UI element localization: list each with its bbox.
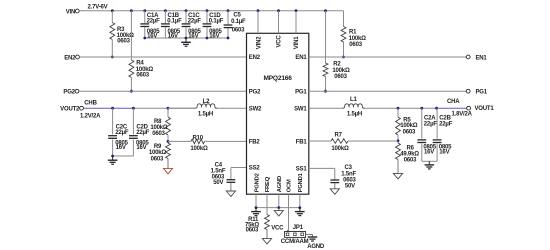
- svg-text:1.5nF: 1.5nF: [341, 171, 356, 177]
- capacitor C2D: [129, 136, 138, 139]
- wire R5 top: [397, 108, 399, 117]
- wire R4 bottom: [130, 78, 132, 92]
- wire rail corner to R1: [343, 11, 345, 27]
- node rail-C1D: [206, 9, 209, 12]
- resistor R6: [396, 143, 401, 160]
- pin label SS1: [296, 167, 308, 173]
- jumper JP1 header: [285, 232, 306, 238]
- svg-text:0603: 0603: [152, 131, 165, 137]
- pin label PGND2: [254, 173, 260, 192]
- resistor R9: [166, 143, 171, 159]
- node rail-VIN2: [257, 9, 260, 12]
- svg-text:100kΩ: 100kΩ: [150, 125, 168, 131]
- svg-text:EN2: EN2: [64, 55, 76, 61]
- wire R2 bottom: [325, 77, 327, 92]
- label R7: [331, 133, 349, 152]
- wire FB1 left: [309, 140, 331, 142]
- svg-text:PG1: PG1: [295, 89, 307, 95]
- node VOUT2-C2C: [111, 107, 114, 110]
- pin label EN1: [295, 55, 307, 61]
- resistor R7: [331, 139, 348, 144]
- svg-text:R1: R1: [349, 30, 357, 36]
- label L1: [347, 97, 362, 117]
- node PGND2: [255, 206, 258, 209]
- capacitor C1A wire: [144, 11, 146, 38]
- node bank C1C: [185, 37, 188, 40]
- label R3: [117, 27, 135, 44]
- svg-text:49.9kΩ: 49.9kΩ: [400, 151, 419, 157]
- svg-text:16V: 16V: [168, 34, 178, 40]
- svg-text:0.1µF: 0.1µF: [209, 19, 224, 25]
- svg-text:L1: L1: [350, 97, 357, 103]
- label C1D: [209, 13, 224, 40]
- svg-text:1.8V/2A: 1.8V/2A: [452, 112, 473, 118]
- terminal EN2: [64, 55, 79, 61]
- resistor R8: [166, 117, 171, 135]
- svg-text:SW1: SW1: [294, 106, 307, 112]
- svg-text:0603: 0603: [343, 178, 356, 184]
- svg-text:16V: 16V: [209, 34, 219, 40]
- wire SW1-L1: [309, 107, 342, 109]
- svg-text:VOUT2: VOUT2: [60, 107, 80, 113]
- svg-text:EN2: EN2: [249, 55, 261, 61]
- svg-text:0603: 0603: [151, 156, 164, 162]
- wire VOUT1 blue: [437, 107, 467, 109]
- node AGND: [277, 206, 280, 209]
- ground AGND jumper: [308, 237, 318, 241]
- resistor R4: [129, 60, 134, 78]
- label R2: [332, 62, 350, 81]
- svg-text:R4: R4: [136, 61, 144, 67]
- label R6: [400, 146, 419, 164]
- resistor R11: [265, 215, 270, 230]
- label C2B: [439, 116, 453, 156]
- label R1: [349, 30, 367, 48]
- svg-text:1.5µH: 1.5µH: [198, 112, 213, 118]
- pin label VIN2: [256, 36, 262, 49]
- node rail-R4: [130, 9, 133, 12]
- label C2C: [115, 124, 129, 151]
- node bank C1D: [206, 37, 209, 40]
- node rail-VCC: [277, 9, 280, 12]
- ground C4: [226, 191, 235, 197]
- terminal VOUT1: [467, 106, 495, 112]
- wire VOUT2 gray: [133, 107, 194, 109]
- svg-text:R10: R10: [192, 135, 203, 141]
- wire R11 bottom: [266, 230, 268, 239]
- svg-text:100kΩ: 100kΩ: [190, 146, 208, 152]
- capacitor C1C wire: [185, 11, 187, 38]
- svg-text:1.5nF: 1.5nF: [211, 168, 226, 174]
- ground R11: [262, 239, 271, 245]
- svg-text:50V: 50V: [213, 180, 223, 186]
- terminal PG2: [63, 89, 79, 95]
- node bank C5: [227, 37, 230, 40]
- wire PG1: [309, 90, 467, 92]
- svg-text:100kΩ: 100kΩ: [400, 123, 418, 129]
- svg-text:22µF: 22µF: [115, 130, 129, 136]
- svg-text:16V: 16V: [147, 34, 157, 40]
- wire SS2: [231, 168, 247, 180]
- pin label FB2: [249, 140, 261, 146]
- svg-text:0603: 0603: [246, 228, 259, 234]
- node FB1 divider: [397, 139, 400, 142]
- svg-text:VOUT1: VOUT1: [475, 106, 495, 112]
- pin label PGND1: [298, 172, 304, 192]
- svg-text:CHA: CHA: [447, 99, 460, 105]
- node bank C1A: [143, 37, 146, 40]
- label C3: [341, 165, 356, 190]
- resistor R5: [396, 117, 401, 135]
- svg-text:FB2: FB2: [249, 140, 261, 146]
- svg-text:VIN2: VIN2: [256, 36, 262, 49]
- node VOUT2-C2D: [132, 107, 135, 110]
- svg-text:PGND1: PGND1: [298, 172, 304, 192]
- wire VIN1 pin: [295, 11, 297, 34]
- wire R5-R6: [397, 135, 399, 143]
- node rail-C5: [227, 9, 230, 12]
- svg-text:VIN1: VIN1: [294, 36, 300, 49]
- pin label AGND: [277, 176, 283, 192]
- svg-text:FB1: FB1: [296, 140, 308, 146]
- svg-text:R8: R8: [154, 119, 162, 125]
- capacitor C2C wire: [112, 108, 114, 156]
- svg-text:0603: 0603: [403, 130, 416, 136]
- wire FB2 right: [205, 140, 247, 142]
- wire VOUT2 blue: [83, 107, 133, 109]
- svg-text:VCC: VCC: [277, 35, 283, 48]
- node rail-R3: [111, 9, 114, 12]
- pin label SW2: [249, 106, 262, 112]
- svg-text:MPQ2166: MPQ2166: [263, 75, 292, 82]
- svg-text:0.1µF: 0.1µF: [167, 19, 182, 25]
- node VOUT1-C2B: [435, 107, 438, 110]
- svg-text:C3: C3: [345, 165, 353, 171]
- node R4-PG2: [130, 90, 133, 93]
- svg-text:0603: 0603: [404, 158, 417, 164]
- label VCC: [271, 225, 284, 231]
- svg-text:22µF: 22µF: [136, 130, 150, 136]
- capacitor C2B: [433, 140, 442, 143]
- wire FREQ pin: [266, 194, 268, 214]
- node rail-C1C: [185, 9, 188, 12]
- resistor R2: [323, 63, 328, 77]
- pin label VCC: [277, 35, 283, 48]
- wire R8-R9: [167, 135, 169, 143]
- svg-text:PG2: PG2: [249, 89, 261, 95]
- wire R3 top: [111, 11, 113, 23]
- inductor L1: [342, 104, 365, 108]
- svg-text:0603: 0603: [117, 38, 130, 44]
- label R10: [190, 135, 208, 152]
- svg-text:22µF: 22µF: [188, 19, 202, 25]
- inductor L2: [195, 104, 218, 108]
- wire FB1 right: [348, 140, 398, 142]
- capacitor C2C: [108, 136, 117, 139]
- node rail-C1B: [164, 9, 167, 12]
- svg-text:EN1: EN1: [476, 55, 488, 61]
- capacitor C2D wire: [132, 108, 134, 156]
- ground R6: [393, 173, 402, 179]
- svg-text:PG1: PG1: [476, 90, 488, 96]
- svg-text:CCM/AAM: CCM/AAM: [281, 239, 309, 245]
- svg-text:22µF: 22µF: [439, 122, 453, 128]
- wire VIN2 pin: [257, 11, 259, 34]
- net label 1.2V/2A: [80, 114, 101, 120]
- wire PGND2 pin: [255, 194, 257, 207]
- net label 1.8V/2A: [452, 112, 473, 118]
- svg-text:SS2: SS2: [249, 166, 261, 172]
- svg-text:1.2V/2A: 1.2V/2A: [80, 114, 101, 120]
- pin label VIN1: [294, 36, 300, 49]
- svg-text:0.1µF: 0.1µF: [231, 19, 246, 25]
- capacitor C5 wire: [227, 11, 229, 38]
- capacitor C1D: [203, 24, 212, 27]
- wire R8 top: [167, 108, 169, 117]
- node VOUT1-R5: [397, 107, 400, 110]
- svg-text:16V: 16V: [188, 34, 198, 40]
- capacitor C1D wire: [206, 11, 208, 38]
- node FB2 divider: [167, 140, 170, 143]
- svg-text:0603: 0603: [349, 42, 362, 48]
- pin label OCM: [287, 179, 293, 192]
- net label 2.7V-6V: [88, 5, 108, 11]
- svg-text:OCM: OCM: [287, 179, 293, 192]
- resistor R1: [341, 27, 346, 43]
- label C5: [231, 12, 246, 33]
- svg-text:2.7V-6V: 2.7V-6V: [88, 5, 108, 11]
- svg-text:0603: 0603: [232, 28, 245, 34]
- pin label FREQ: [265, 176, 271, 192]
- node rail-C1A: [143, 9, 146, 12]
- capacitor C4: [227, 180, 236, 183]
- node PGND1: [298, 206, 301, 209]
- wire SW2-L2: [168, 107, 247, 109]
- wire PGND1 pin: [299, 194, 301, 207]
- wire VIN rail: [79, 10, 343, 12]
- svg-text:R2: R2: [333, 62, 341, 68]
- node R3-EN2: [111, 56, 114, 59]
- svg-text:R7: R7: [335, 133, 343, 139]
- pin label SS2: [249, 166, 261, 172]
- svg-text:EN1: EN1: [295, 55, 307, 61]
- svg-text:100kΩ: 100kΩ: [332, 68, 350, 74]
- wire R2 top: [325, 11, 327, 63]
- pin label PG2: [249, 89, 261, 95]
- svg-text:16V: 16V: [116, 145, 126, 151]
- svg-text:16V: 16V: [424, 150, 434, 156]
- svg-text:100kΩ: 100kΩ: [331, 146, 349, 152]
- capacitor C1C: [182, 24, 191, 27]
- svg-text:100kΩ: 100kΩ: [349, 36, 367, 42]
- pin label EN2: [249, 55, 261, 61]
- label C1C: [188, 13, 202, 40]
- node C2C gnd: [111, 155, 114, 158]
- capacitor C2B wire: [436, 108, 438, 161]
- ground C2C: [108, 156, 118, 164]
- node VOUT1-C2A: [420, 107, 423, 110]
- ground cap bank: [181, 38, 191, 46]
- node rail-R2: [324, 9, 327, 12]
- wire VCC pin: [278, 11, 280, 34]
- node R1-EN1: [342, 56, 345, 59]
- ground PGND2: [251, 208, 261, 216]
- label C2D: [136, 124, 150, 151]
- svg-text:50V: 50V: [345, 184, 355, 190]
- wire AGND pin: [278, 194, 280, 207]
- svg-text:VIN: VIN: [66, 9, 75, 15]
- svg-text:16V: 16V: [439, 150, 449, 156]
- svg-text:CHB: CHB: [84, 101, 97, 107]
- label L2: [198, 99, 213, 118]
- label MPQ2166: [263, 75, 292, 82]
- svg-text:SW2: SW2: [249, 106, 262, 112]
- resistor R10: [191, 139, 205, 144]
- svg-text:C5: C5: [233, 12, 241, 18]
- pin label FB1: [296, 140, 308, 146]
- label R11: [245, 217, 259, 234]
- wire R3 bottom: [111, 40, 113, 58]
- node R2-PG1: [324, 90, 327, 93]
- terminal VIN: [66, 9, 80, 15]
- ground AGND pin: [274, 208, 283, 217]
- wire EN1: [309, 56, 467, 58]
- wire cap bank bottom rail: [145, 37, 228, 39]
- label R9: [149, 144, 167, 162]
- wire FB2 left: [168, 140, 191, 142]
- wire OCM pin: [288, 194, 290, 231]
- ground PGND1: [295, 208, 305, 216]
- wire C2A/C2B bottom rail: [422, 160, 437, 162]
- wire C2C/C2D bottom rail: [113, 155, 134, 157]
- capacitor C1B wire: [164, 11, 166, 38]
- label C1A: [147, 13, 161, 40]
- svg-text:22µF: 22µF: [147, 19, 161, 25]
- wire C4 bottom: [230, 182, 232, 191]
- svg-text:FREQ: FREQ: [265, 176, 271, 192]
- wire JP1-AGND: [306, 234, 313, 237]
- label R8: [150, 119, 168, 137]
- svg-text:1.5µH: 1.5µH: [347, 112, 362, 118]
- label CCM/AAM: [281, 239, 309, 245]
- svg-text:AGND: AGND: [277, 176, 283, 192]
- svg-text:22µF: 22µF: [424, 122, 438, 128]
- svg-text:PG2: PG2: [63, 90, 75, 96]
- capacitor C3: [330, 180, 339, 183]
- wire VCC stub: [287, 230, 289, 232]
- svg-text:0603: 0603: [136, 72, 149, 78]
- wire EN2: [79, 56, 246, 58]
- label C1B: [167, 13, 182, 40]
- ground C3: [330, 189, 339, 195]
- svg-text:L2: L2: [203, 99, 210, 105]
- svg-text:SS1: SS1: [296, 167, 308, 173]
- terminal PG1: [466, 89, 487, 95]
- node rail-VIN1: [295, 9, 298, 12]
- ground C2A/C2B: [425, 161, 435, 169]
- svg-text:VCC: VCC: [271, 225, 284, 231]
- net label CHB: [84, 101, 97, 107]
- wire PG2: [79, 90, 247, 92]
- label JP1: [293, 225, 304, 231]
- label AGND: [307, 244, 325, 250]
- wire L1-VOUT1: [365, 107, 437, 109]
- op-amp U1 MPQ2166 box: [247, 33, 309, 194]
- capacitor C1B: [161, 24, 170, 27]
- svg-text:16V: 16V: [136, 145, 146, 151]
- wire R1 bottom: [343, 42, 345, 57]
- label C4: [211, 162, 226, 186]
- svg-text:PGND2: PGND2: [254, 173, 260, 192]
- label C2A: [423, 116, 437, 156]
- svg-text:AGND: AGND: [307, 244, 325, 250]
- capacitor C2A: [417, 140, 426, 143]
- resistor R3: [110, 23, 115, 40]
- wire R9 bottom: [167, 159, 169, 169]
- capacitor C2A wire: [421, 108, 423, 161]
- svg-text:100kΩ: 100kΩ: [149, 150, 167, 156]
- wire R4 top: [130, 11, 132, 60]
- label R5: [400, 118, 418, 136]
- pin label PG1: [295, 89, 307, 95]
- node VOUT2-R8: [167, 107, 170, 110]
- ground R9 (red): [163, 168, 172, 174]
- terminal EN1: [466, 55, 487, 61]
- wire R6 bottom: [397, 160, 399, 174]
- net label CHA: [447, 99, 460, 105]
- wire PGND tie: [256, 207, 300, 209]
- wire C3 bottom: [334, 183, 336, 189]
- wire SS1: [309, 168, 335, 180]
- svg-text:0603: 0603: [334, 74, 347, 80]
- terminal VOUT2: [60, 106, 83, 112]
- capacitor C1A: [140, 24, 149, 27]
- label R4: [136, 61, 154, 79]
- capacitor C5: [224, 25, 233, 28]
- svg-text:JP1: JP1: [293, 225, 304, 231]
- pin label SW1: [294, 106, 307, 112]
